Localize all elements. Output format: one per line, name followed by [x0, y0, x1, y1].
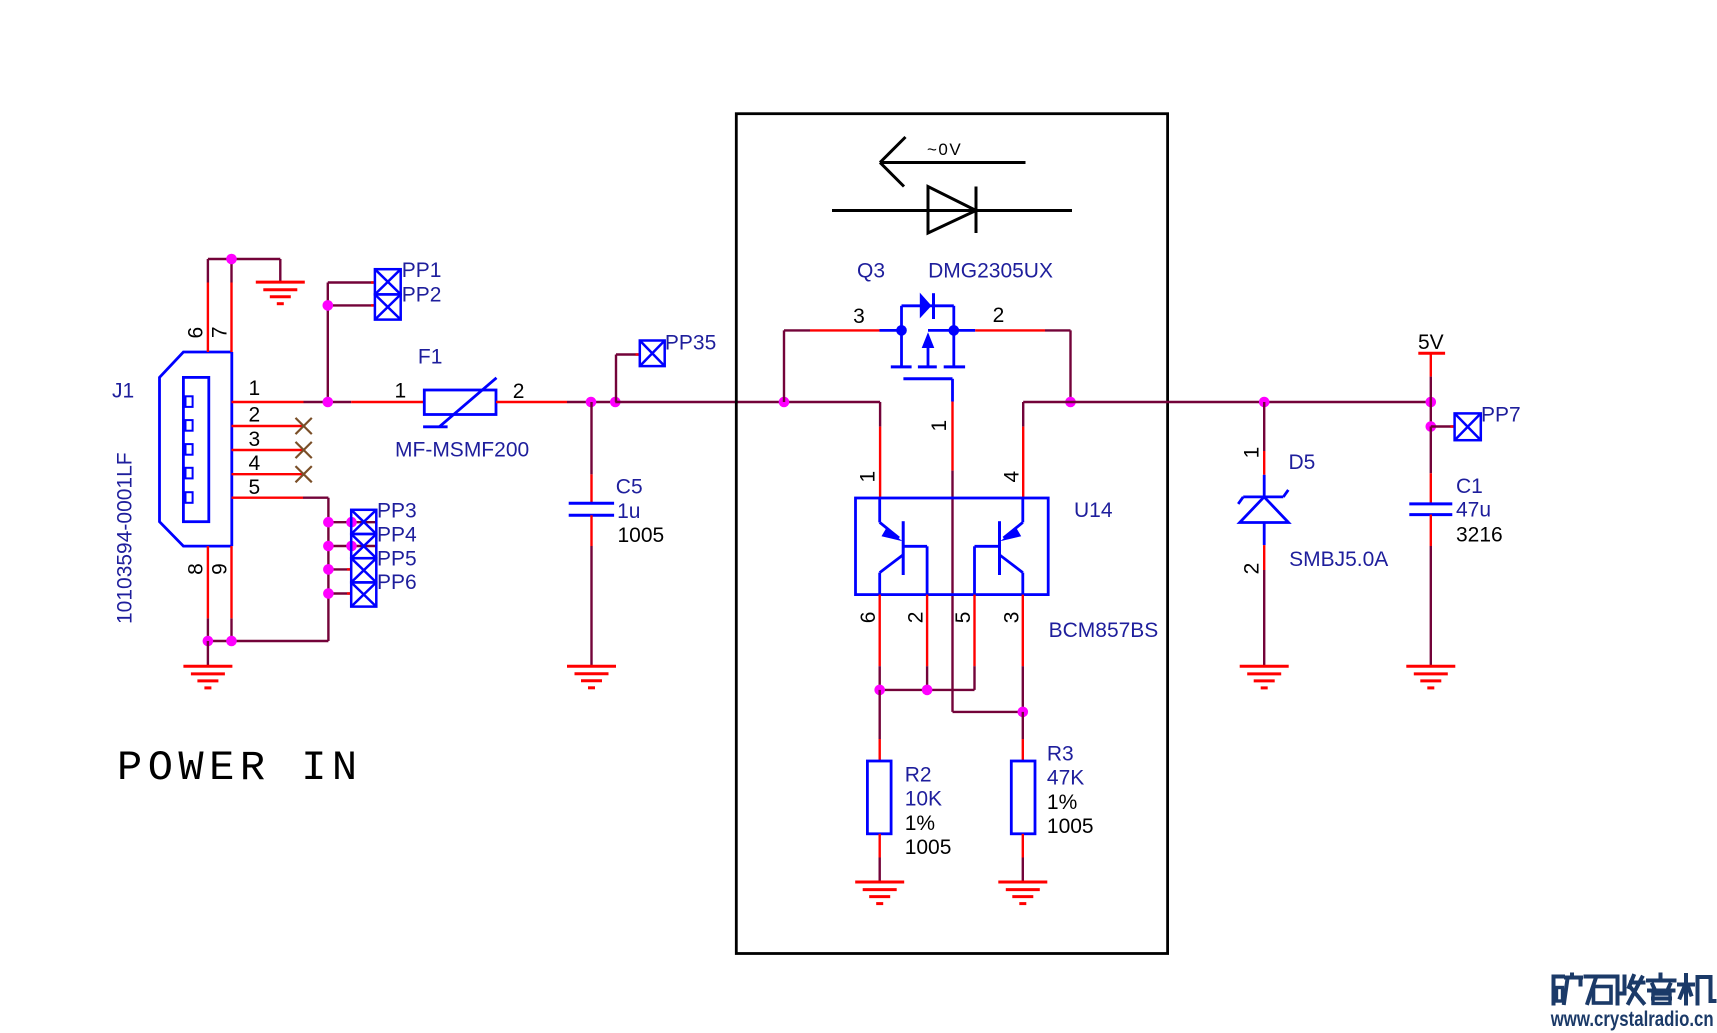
svg-text:1: 1: [856, 471, 879, 483]
svg-text:5V: 5V: [1418, 331, 1444, 354]
svg-text:J1: J1: [112, 380, 134, 403]
svg-text:3: 3: [853, 305, 865, 328]
svg-text:PP5: PP5: [377, 547, 417, 570]
svg-text:BCM857BS: BCM857BS: [1049, 619, 1159, 642]
svg-text:D5: D5: [1289, 451, 1316, 474]
svg-text:1: 1: [1241, 447, 1264, 459]
svg-text:1005: 1005: [905, 836, 952, 859]
svg-text:1005: 1005: [1047, 815, 1094, 838]
svg-text:1%: 1%: [1047, 791, 1077, 814]
svg-text:2: 2: [248, 403, 260, 426]
svg-text:C1: C1: [1456, 475, 1483, 498]
svg-text:POWER IN: POWER IN: [117, 744, 363, 792]
svg-text:5: 5: [248, 476, 260, 499]
svg-text:2: 2: [993, 304, 1005, 327]
svg-text:DMG2305UX: DMG2305UX: [928, 260, 1053, 283]
svg-text:PP4: PP4: [377, 523, 417, 546]
svg-text:2: 2: [513, 380, 525, 403]
svg-text:7: 7: [209, 326, 232, 338]
svg-text:U14: U14: [1074, 499, 1113, 522]
svg-text:4: 4: [248, 452, 260, 475]
svg-text:PP35: PP35: [665, 332, 716, 355]
svg-text:1005: 1005: [618, 524, 665, 547]
svg-text:3216: 3216: [1456, 524, 1503, 547]
svg-text:4: 4: [1001, 470, 1024, 482]
svg-text:1: 1: [928, 420, 951, 432]
svg-text:PP7: PP7: [1481, 404, 1521, 427]
svg-text:2: 2: [1241, 563, 1264, 575]
svg-text:C5: C5: [616, 475, 643, 498]
svg-text:3: 3: [1000, 612, 1023, 624]
svg-text:10103594-0001LF: 10103594-0001LF: [114, 452, 137, 624]
svg-text:1u: 1u: [617, 500, 640, 523]
svg-text:9: 9: [209, 563, 232, 575]
svg-text:8: 8: [185, 563, 208, 575]
svg-text:PP6: PP6: [377, 571, 417, 594]
svg-text:1: 1: [248, 377, 260, 400]
svg-text:6: 6: [857, 612, 880, 624]
svg-text:Q3: Q3: [857, 260, 885, 283]
svg-text:F1: F1: [418, 346, 443, 369]
svg-text:R3: R3: [1047, 743, 1074, 766]
svg-text:~0V: ~0V: [927, 140, 962, 159]
svg-text:10K: 10K: [905, 788, 942, 811]
svg-text:47K: 47K: [1047, 767, 1084, 790]
svg-text:6: 6: [185, 327, 208, 339]
svg-text:2: 2: [905, 612, 928, 624]
svg-text:R2: R2: [905, 764, 932, 787]
svg-text:PP1: PP1: [402, 259, 442, 282]
svg-text:MF-MSMF200: MF-MSMF200: [395, 439, 529, 462]
svg-text:PP2: PP2: [402, 283, 442, 306]
svg-text:www.crystalradio.cn: www.crystalradio.cn: [1550, 1008, 1714, 1031]
svg-text:PP3: PP3: [377, 500, 417, 523]
svg-text:1%: 1%: [905, 812, 935, 835]
svg-text:1: 1: [394, 379, 406, 402]
svg-text:5: 5: [952, 612, 975, 624]
svg-text:SMBJ5.0A: SMBJ5.0A: [1289, 548, 1388, 571]
svg-text:3: 3: [248, 428, 260, 451]
svg-text:47u: 47u: [1456, 499, 1491, 522]
